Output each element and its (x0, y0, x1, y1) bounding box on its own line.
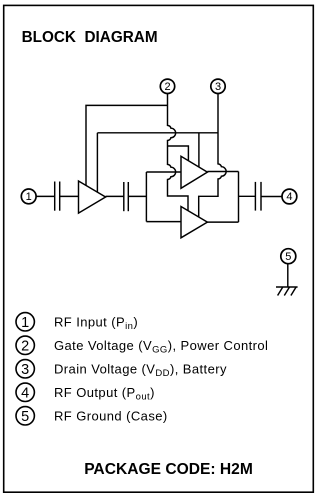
svg-text:4: 4 (21, 386, 29, 402)
svg-text:1: 1 (26, 191, 32, 203)
legend (16, 313, 268, 425)
pin 5 terminal (281, 249, 296, 264)
svg-text:3: 3 (21, 362, 29, 378)
svg-text:5: 5 (21, 409, 29, 425)
svg-text:1: 1 (21, 315, 29, 331)
wire combiner to C3 (239, 195, 256, 197)
drain feed wire to A2 (198, 133, 200, 167)
amplifier A1 (79, 181, 106, 213)
svg-text:Drain Voltage (VDD), Battery: Drain Voltage (VDD), Battery (54, 361, 227, 379)
capacitor C2 (124, 182, 129, 211)
pin 1 terminal (21, 189, 36, 204)
amplifier A2 (181, 156, 207, 188)
legend pin 2: Gate Voltage (16, 336, 268, 355)
legend pin 3: Drain Voltage (16, 360, 227, 379)
svg-text:3: 3 (215, 81, 221, 93)
wire C2 to splitter (128, 195, 146, 197)
capacitor C1 (55, 182, 60, 211)
footer PACKAGE CODE (84, 461, 253, 478)
pin 2 terminal (160, 79, 174, 93)
splitter left vertical (145, 172, 147, 222)
pin 5 stem (287, 264, 289, 287)
svg-text:BLOCK DIAGRAM: BLOCK DIAGRAM (22, 29, 158, 46)
ground (case) symbol (276, 287, 298, 296)
A2 output wire (207, 171, 238, 173)
wire pin1 to C1 (36, 195, 54, 197)
legend pin 1: RF Input (16, 313, 138, 332)
gate bias wire pin2 net to A1 (86, 105, 168, 185)
svg-text:2: 2 (164, 81, 170, 93)
drain bias wire pin3 net to A1 (96, 133, 98, 193)
pin 4 terminal (282, 189, 297, 204)
svg-text:Gate Voltage (VGG), Power Cont: Gate Voltage (VGG), Power Control (54, 338, 268, 356)
wire splitter to A2 input (146, 171, 181, 173)
wire C3 to pin 4 (261, 196, 282, 198)
svg-text:PACKAGE CODE: H2M: PACKAGE CODE: H2M (84, 461, 253, 478)
svg-text:2: 2 (21, 339, 29, 355)
wire C1 to A1 (60, 195, 79, 197)
pin 2 stem with crossover hops (168, 94, 189, 211)
wire splitter to A3 input (146, 221, 181, 223)
legend pin 5: RF Ground (16, 407, 168, 425)
svg-text:4: 4 (286, 191, 292, 203)
svg-text:RF Output (Pout): RF Output (Pout) (54, 385, 155, 403)
svg-text:RF Ground (Case): RF Ground (Case) (54, 408, 168, 423)
svg-text:5: 5 (285, 251, 291, 263)
svg-text:RF Input (Pin): RF Input (Pin) (54, 314, 138, 332)
drain bus wire B pin3 to A1 (97, 132, 218, 134)
pin 3 terminal (211, 79, 225, 93)
wire A1 output to C2 (106, 195, 124, 197)
pin 3 stem with crossover hop (199, 94, 226, 218)
A3 output wire (207, 221, 238, 223)
gate feed wire to A2 (168, 146, 189, 161)
capacitor C3 (255, 182, 261, 211)
combiner right vertical (238, 172, 240, 223)
amplifier A3 (181, 207, 207, 238)
legend pin 4: RF Output (16, 383, 155, 402)
title BLOCK DIAGRAM (22, 29, 158, 46)
